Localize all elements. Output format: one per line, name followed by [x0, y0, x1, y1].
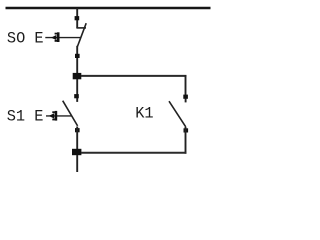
- actuator: manual push for S0: [45, 32, 80, 42]
- pushbutton S0 (normally-closed contact): [75, 16, 87, 58]
- svg-text:K1: K1: [135, 104, 153, 122]
- actuator: manual push for S1: [46, 111, 72, 121]
- wire: bus to S0 top terminal: [76, 8, 78, 17]
- node A (junction of S0, S1, K1 branch): [73, 73, 82, 79]
- svg-text:SO E: SO E: [7, 29, 44, 47]
- wire: top supply bus: [6, 7, 211, 10]
- relay contact K1 (normally-open): [169, 95, 188, 133]
- wire: S1 bottom terminal to node B: [76, 127, 78, 151]
- wire: S0 bottom terminal to node A: [76, 58, 78, 74]
- wire: node A to K1 branch (horizontal rail and riser): [81, 75, 186, 95]
- wire: K1 bottom terminal to node B (riser and horizontal rail): [81, 127, 186, 154]
- wire: node A to S1 top terminal: [76, 79, 78, 95]
- svg-text:S1 E: S1 E: [7, 107, 44, 125]
- wire: node B to output (bottom stub): [76, 155, 78, 172]
- pushbutton S1 (normally-open contact): [63, 94, 80, 132]
- node B (junction of S1, K1, output): [72, 149, 81, 155]
